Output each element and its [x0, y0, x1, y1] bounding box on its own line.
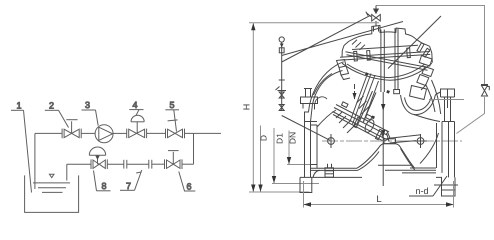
svg-text:2: 2	[49, 101, 54, 111]
right flange	[414, 122, 455, 178]
svg-text:L: L	[376, 194, 381, 205]
diaphragm flange bolts	[354, 43, 430, 61]
svg-text:D: D	[259, 135, 269, 141]
svg-text:1: 1	[16, 101, 21, 111]
control valve 8	[89, 147, 107, 169]
leader line diaphragm	[388, 16, 441, 69]
wire top run a	[35, 132, 62, 134]
pilot column	[381, 28, 400, 186]
label 4	[129, 100, 143, 116]
gate valve 2	[62, 120, 81, 139]
bonnet flange	[333, 102, 391, 142]
cover fitting valve	[366, 6, 381, 32]
wire top run outlet	[185, 132, 222, 134]
wire lower run c	[152, 163, 165, 165]
wire lower run d	[182, 163, 194, 165]
pilot tube top	[376, 6, 485, 134]
svg-text:3: 3	[85, 100, 90, 110]
svg-text:4: 4	[132, 100, 137, 110]
dimension H	[242, 23, 380, 192]
union joint 7b	[149, 160, 152, 169]
label n-d	[409, 176, 447, 196]
pilot tube to inlet	[282, 116, 330, 141]
label 6	[179, 172, 196, 192]
union joint 7a	[124, 160, 127, 169]
outlet arm	[384, 80, 441, 164]
pipe centerline	[322, 140, 462, 142]
svg-text:n-d: n-d	[415, 186, 428, 196]
pump 3	[95, 125, 113, 143]
wire lower run b	[107, 163, 124, 165]
baseline	[249, 191, 310, 193]
wire pump outlet	[113, 132, 127, 134]
outlet port stub	[429, 89, 464, 122]
suction pipe	[34, 133, 36, 189]
pilot gauge	[279, 37, 285, 111]
label 1	[11, 101, 32, 193]
dimension D1	[272, 128, 319, 184]
inlet arm	[301, 62, 344, 127]
left ear lug	[337, 60, 351, 80]
svg-text:DN: DN	[288, 132, 298, 144]
tank 1	[25, 174, 79, 212]
right ear lug	[417, 56, 434, 91]
label 8	[94, 171, 111, 192]
bonnet neck	[350, 74, 390, 126]
pilot needle valve lower	[279, 105, 284, 111]
dimension DN	[287, 131, 311, 165]
label 2	[45, 101, 69, 128]
svg-text:8: 8	[101, 181, 106, 191]
pilot needle valve upper	[276, 87, 287, 99]
svg-text:6: 6	[186, 181, 191, 191]
right foot	[434, 177, 458, 196]
inlet port centerline	[353, 84, 357, 100]
pilot check valve	[481, 85, 489, 97]
left flange	[305, 122, 335, 178]
drain plug	[325, 164, 334, 177]
stem	[360, 91, 377, 134]
tank drop pipe	[66, 164, 68, 180]
label 7	[120, 170, 142, 191]
gate valve 5	[166, 120, 185, 138]
wire lower run a	[67, 163, 91, 165]
pilot tube to cover	[282, 15, 371, 62]
dimension L	[304, 181, 454, 208]
seat hatching	[336, 96, 369, 133]
svg-text:7: 7	[126, 181, 131, 191]
check valve 4	[127, 115, 147, 138]
left foot	[300, 177, 312, 192]
riser pipe	[193, 133, 195, 164]
label 5	[165, 100, 179, 132]
svg-text:D1: D1	[275, 133, 285, 144]
wire spool 7	[127, 163, 149, 165]
wire valve4 to valve5	[147, 132, 166, 134]
gate valve 6	[165, 151, 183, 169]
label 3	[82, 100, 99, 126]
svg-text:5: 5	[169, 100, 174, 110]
dimension D	[258, 126, 268, 192]
wire pump inlet	[81, 132, 95, 134]
actuator dome	[340, 26, 432, 81]
svg-text:H: H	[242, 104, 252, 111]
body bottom	[300, 144, 436, 178]
